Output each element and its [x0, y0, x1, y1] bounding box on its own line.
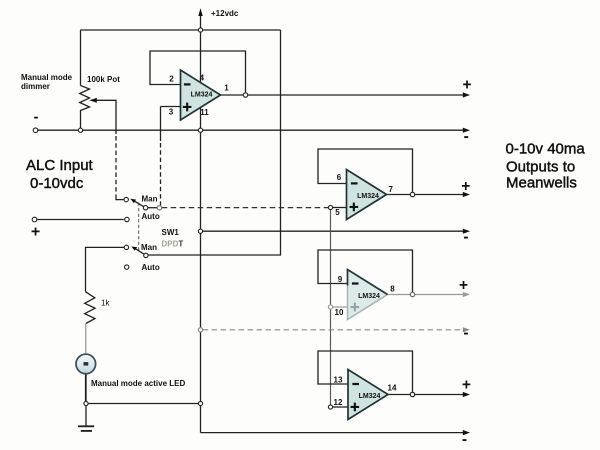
svg-text:Meanwells: Meanwells	[506, 175, 577, 192]
svg-text:LM324: LM324	[357, 193, 379, 200]
svg-text:-: -	[34, 109, 39, 126]
svg-text:-: -	[463, 325, 468, 342]
svg-text:Auto: Auto	[142, 263, 160, 272]
svg-text:dimmer: dimmer	[21, 82, 50, 91]
svg-text:+: +	[461, 178, 470, 195]
svg-text:-: -	[464, 128, 469, 145]
svg-text:+12vdc: +12vdc	[211, 9, 239, 18]
svg-text:6: 6	[337, 173, 342, 182]
svg-text:Man: Man	[142, 194, 158, 203]
svg-text:8: 8	[390, 285, 395, 294]
svg-text:14: 14	[388, 384, 397, 393]
svg-text:+: +	[462, 377, 471, 394]
svg-text:4: 4	[200, 74, 205, 83]
svg-text:0-10vdc: 0-10vdc	[30, 175, 84, 192]
svg-text:1k: 1k	[101, 298, 110, 307]
svg-text:DPDT: DPDT	[162, 239, 184, 248]
svg-text:Manual mode: Manual mode	[21, 73, 73, 82]
svg-text:13: 13	[334, 376, 343, 385]
svg-text:LM324: LM324	[359, 393, 381, 400]
svg-text:1: 1	[224, 84, 229, 93]
svg-text:+: +	[459, 277, 468, 294]
svg-text:7: 7	[388, 185, 393, 194]
svg-text:ALC Input: ALC Input	[26, 157, 94, 174]
svg-text:100k Pot: 100k Pot	[87, 75, 120, 84]
svg-text:3: 3	[169, 108, 174, 117]
svg-text:10: 10	[335, 308, 344, 317]
svg-text:-: -	[463, 229, 468, 246]
svg-text:Manual mode active LED: Manual mode active LED	[91, 379, 185, 388]
svg-text:+: +	[31, 224, 40, 241]
svg-text:Outputs to: Outputs to	[506, 159, 575, 176]
svg-text:9: 9	[338, 275, 343, 284]
svg-text:Auto: Auto	[142, 212, 160, 221]
svg-text:LM324: LM324	[358, 293, 380, 300]
svg-text:0-10v 40ma: 0-10v 40ma	[506, 141, 586, 158]
svg-text:SW1: SW1	[162, 228, 180, 237]
svg-text:2: 2	[169, 75, 174, 84]
svg-text:+: +	[462, 77, 471, 94]
svg-text:Man: Man	[141, 243, 157, 252]
svg-text:11: 11	[200, 108, 209, 117]
svg-text:-: -	[462, 431, 467, 448]
svg-text:12: 12	[334, 398, 343, 407]
svg-text:LM324: LM324	[191, 91, 213, 98]
svg-text:5: 5	[335, 208, 340, 217]
